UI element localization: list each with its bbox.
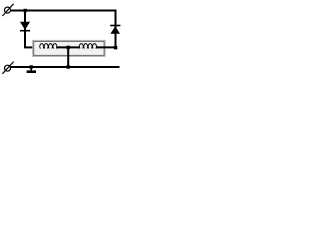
diode D2 (cathode up) [110,25,120,34]
wire right vertical [115,10,117,48]
node junction center tap [67,46,70,49]
wire left diode branch vertical [24,11,26,48]
port P2 (bottom-left terminal) [2,62,13,74]
inductor L2 [79,44,96,49]
node junction J1 [24,9,27,12]
box U1 (inductor block outline) [33,40,105,56]
wire center tap vertical [67,47,69,67]
wire bottom horizontal [11,66,120,68]
node junction tap-bottom [67,65,70,68]
ground [27,67,36,73]
wire top horizontal [11,10,117,12]
node junction ground [30,65,33,68]
wire left diode branch horizontal into box [24,46,40,48]
inductor L1 [40,44,57,49]
wire box right to junction [96,46,116,48]
port P1 (top-left terminal) [2,4,13,16]
wire between inductors [56,46,79,48]
node junction right [114,46,117,49]
diode D1 (cathode down) [20,22,30,32]
